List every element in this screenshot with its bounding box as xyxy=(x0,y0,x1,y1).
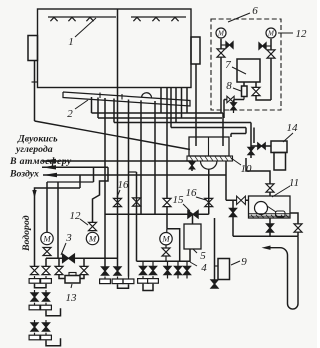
valve under right M xyxy=(267,50,275,58)
stub x167.5 xyxy=(167,261,169,266)
foot x34 xyxy=(34,276,36,279)
tier2 foot right xyxy=(45,303,47,306)
pump bottom stub xyxy=(269,218,271,236)
svg-text:5: 5 xyxy=(200,250,206,262)
stub y172 xyxy=(129,171,137,173)
svg-text:9: 9 xyxy=(241,256,247,268)
valve x59 xyxy=(55,266,63,274)
filter 14 head xyxy=(271,141,287,153)
tier3 valve right xyxy=(45,320,47,323)
pump base line 2 xyxy=(249,215,291,217)
tier3 valve left xyxy=(34,320,36,323)
drain drop to bundle xyxy=(223,100,225,119)
drain column x214 xyxy=(214,218,216,280)
transfer pipe y118 xyxy=(98,117,222,119)
drop pipe a xyxy=(160,88,162,114)
svg-text:16: 16 xyxy=(118,179,130,191)
pipe to trap 13 xyxy=(59,275,65,279)
manifold y214 xyxy=(105,213,209,215)
tier2 valve right xyxy=(45,290,47,293)
manifold 3 (y258) xyxy=(46,257,118,259)
gauge M left (rotameter drive) xyxy=(216,28,226,38)
tank right tab xyxy=(191,37,200,64)
valve x46 xyxy=(42,266,50,274)
air line xyxy=(43,174,226,176)
stub to check valve right xyxy=(266,45,271,47)
svg-text:3: 3 xyxy=(65,232,72,244)
CO2 outlet line xyxy=(42,160,192,162)
riser x246 xyxy=(245,128,247,134)
svg-text:Воздух: Воздух xyxy=(9,169,39,180)
separator outlet stub xyxy=(230,134,232,138)
label 12 leader xyxy=(278,32,293,34)
stub to check valve xyxy=(221,44,226,46)
separator dome xyxy=(201,161,217,169)
separator divider xyxy=(208,137,210,156)
label 2 leader xyxy=(75,100,88,109)
pump motor xyxy=(276,211,286,217)
tier2 foot left xyxy=(34,303,36,306)
separator outlet pipe xyxy=(231,133,246,135)
valve x153 xyxy=(149,266,156,274)
valve x187 xyxy=(183,266,190,274)
label 5 leader xyxy=(193,249,197,253)
valve under left M xyxy=(217,49,225,57)
pipe under left M xyxy=(220,39,222,113)
long vertical x128 xyxy=(128,100,130,277)
label 10 leader xyxy=(231,158,241,165)
stub x143 xyxy=(142,261,144,266)
pipe from trap 13 xyxy=(80,275,84,279)
valve x84 xyxy=(80,266,88,274)
tab stub to tank xyxy=(32,81,38,83)
stub x153 xyxy=(152,261,154,266)
rotameter 8 xyxy=(242,86,248,97)
pump circle xyxy=(255,202,268,215)
tail x167.5 xyxy=(167,275,169,279)
long vertical x117 (divider continuation) xyxy=(117,88,119,272)
svg-text:M: M xyxy=(217,29,225,37)
dashed box 6 xyxy=(211,19,281,110)
apparatus 7 xyxy=(237,59,260,82)
svg-text:M: M xyxy=(88,233,97,243)
rotameter bottom stub xyxy=(243,97,245,100)
trough vent arc xyxy=(142,93,152,98)
tail x178 xyxy=(177,275,179,279)
svg-text:16: 16 xyxy=(186,187,198,199)
trough drain pipe 2 xyxy=(97,98,99,119)
separator inlet pipe (dip tube) xyxy=(222,113,224,146)
svg-text:M: M xyxy=(267,29,275,37)
drop pipe e xyxy=(181,88,183,119)
long vertical x105 xyxy=(104,98,106,271)
branch to bottom pipe xyxy=(232,200,234,236)
riser x254 xyxy=(253,128,255,144)
gauge M right xyxy=(266,28,276,38)
pump right valve xyxy=(294,224,302,232)
atmosphere vent line xyxy=(42,166,108,168)
valve under box 7 xyxy=(252,87,260,95)
trough drain pipe 3 xyxy=(113,99,115,123)
trough divider b xyxy=(121,94,123,100)
svg-text:Двуокись: Двуокись xyxy=(17,134,58,145)
box5 top pipe xyxy=(192,214,194,224)
foot x153 xyxy=(152,276,154,279)
transfer pipe y122 xyxy=(114,122,251,124)
drop pipe f xyxy=(186,88,188,114)
gauge M bottom right xyxy=(86,232,98,244)
filter 14 body xyxy=(274,153,286,171)
valve 16b xyxy=(205,198,213,206)
trough drain pipe 1 xyxy=(91,97,93,113)
drain cock xyxy=(227,96,234,103)
valve 16a xyxy=(114,198,122,206)
rotameter drain pipe xyxy=(224,99,244,101)
label 13 leader xyxy=(71,284,72,288)
stub x46 xyxy=(45,258,47,266)
svg-text:8: 8 xyxy=(226,80,232,92)
svg-text:6: 6 xyxy=(252,5,258,17)
column x47 xyxy=(46,182,48,233)
foot x105 xyxy=(104,277,106,280)
manifold 4 (y261) xyxy=(137,249,191,261)
check valve left xyxy=(226,42,233,49)
gauge M center xyxy=(160,233,172,245)
label 14 leader xyxy=(283,133,293,142)
stub M center top xyxy=(166,229,168,233)
transfer pipe y127 xyxy=(171,127,246,129)
svg-text:углерода: углерода xyxy=(15,144,53,155)
tier3 foot left xyxy=(34,333,36,336)
bottom header pipe xyxy=(233,235,298,237)
transfer pipe y113 xyxy=(92,112,224,114)
suction downpipe xyxy=(225,161,227,200)
tier3 J pipe xyxy=(46,338,61,346)
tail x187 xyxy=(186,275,188,279)
label 1 leader xyxy=(75,18,96,37)
label 16a leader xyxy=(117,190,120,197)
svg-text:12: 12 xyxy=(70,210,82,222)
stub box7 right xyxy=(255,82,257,88)
stub to sampler xyxy=(215,265,219,267)
label 4 leader xyxy=(190,262,197,266)
dome drain pipe xyxy=(208,169,210,214)
apparatus 5 xyxy=(184,224,201,249)
valve 15-row xyxy=(163,198,171,206)
filter feed pipe xyxy=(251,145,271,147)
valve above tray xyxy=(248,147,254,154)
pump bottom valve xyxy=(266,224,273,232)
stub x59 xyxy=(58,258,60,266)
filter feed valve xyxy=(258,143,266,149)
foot x143 xyxy=(142,276,144,279)
tier2 J pipe xyxy=(46,308,61,316)
stub box7 to rotameter xyxy=(243,82,245,86)
label 8 leader xyxy=(233,88,241,91)
tray drain valve xyxy=(189,162,194,169)
trough divider a xyxy=(99,93,101,99)
drop pipe b (to valve row) xyxy=(166,88,168,215)
spray header right xyxy=(131,16,186,18)
label 11 leader xyxy=(272,186,290,197)
pump right outlet xyxy=(290,213,298,236)
drop pipe c xyxy=(170,88,172,128)
discharge valve xyxy=(266,184,274,192)
foot x117 xyxy=(117,277,119,280)
foot under x128 xyxy=(128,277,130,280)
sloped drain pipe to separator xyxy=(35,121,191,150)
valve under M center xyxy=(162,248,170,256)
tank left tab xyxy=(28,36,38,61)
long vertical x155 xyxy=(154,101,156,214)
branch valve xyxy=(229,208,236,216)
column x58 xyxy=(57,182,59,258)
drain stem xyxy=(233,100,235,114)
svg-text:2: 2 xyxy=(67,108,73,120)
valve 12 bottom xyxy=(89,222,97,230)
svg-text:14: 14 xyxy=(287,122,299,134)
svg-text:M: M xyxy=(42,233,51,243)
drop x93 xyxy=(93,167,95,182)
label 12 leader bottom xyxy=(80,219,88,225)
stub M center low xyxy=(165,256,167,261)
label 3 leader xyxy=(61,243,66,255)
hydrogen inlet pipe xyxy=(35,188,81,266)
stub x178 xyxy=(177,261,179,266)
stub x187 xyxy=(186,261,188,266)
valve x143 xyxy=(139,266,146,274)
separator 10 box xyxy=(189,137,229,156)
suction pipe xyxy=(226,199,249,201)
check valve right xyxy=(259,43,266,50)
header y182 xyxy=(47,181,94,183)
svg-text:M: M xyxy=(161,234,170,244)
long vertical x141 xyxy=(140,100,142,214)
hydrogen riser joint xyxy=(79,175,81,189)
tab drop pipe xyxy=(34,61,36,122)
drain valve solid xyxy=(231,103,237,110)
column x136 xyxy=(136,172,138,261)
pipe to right riser xyxy=(256,96,271,101)
riser to filter line and tray xyxy=(250,123,252,159)
gauge M bottom left xyxy=(41,232,53,244)
U loop with arrow xyxy=(269,236,299,309)
sampler 9 xyxy=(218,259,230,280)
svg-text:15: 15 xyxy=(173,194,185,206)
svg-text:1: 1 xyxy=(68,36,74,48)
svg-text:11: 11 xyxy=(289,177,299,189)
tank divider wall xyxy=(117,9,119,88)
pump coupling xyxy=(267,206,276,212)
svg-text:7: 7 xyxy=(225,59,231,71)
svg-text:4: 4 xyxy=(201,262,207,274)
U pipe under feet x143-x153 xyxy=(143,284,153,291)
tray left drain xyxy=(191,161,193,171)
label 6 leader xyxy=(228,13,250,22)
valve x167.5 xyxy=(164,266,171,274)
valve under M left xyxy=(43,248,51,256)
label 15 leader xyxy=(183,204,190,211)
U pipe under feet x34-x46 xyxy=(35,284,47,288)
valve hydrogen col xyxy=(31,266,39,274)
suction valve xyxy=(237,196,246,204)
column x92 staircase from vent line xyxy=(93,167,109,222)
separator tray (hatched) xyxy=(187,156,233,161)
pump base hatch xyxy=(251,215,254,218)
valve x136 xyxy=(133,198,141,206)
drop pipe d xyxy=(175,88,177,123)
label 7 leader xyxy=(232,67,246,74)
pump base line xyxy=(249,213,291,215)
foot x46 xyxy=(45,276,47,279)
tank 1 (scrubber body) xyxy=(38,9,192,88)
label 9 leader xyxy=(231,261,240,265)
trough 2 (sloped collector) xyxy=(63,92,190,106)
svg-text:В атмосферу: В атмосферу xyxy=(9,156,72,167)
drain valve x214 xyxy=(211,280,218,288)
valve x178 xyxy=(174,266,181,274)
tier2 valve left xyxy=(34,290,36,293)
valve x117 xyxy=(114,267,121,275)
trap 13 xyxy=(65,276,80,284)
column 167 lower xyxy=(166,214,168,229)
valve 15 (solid) xyxy=(188,210,198,218)
valve 3 (solid) xyxy=(63,254,75,263)
pipe from right tab down (dips into separator) xyxy=(195,64,197,146)
spray header left xyxy=(48,16,116,18)
L pipe to manifold 4 xyxy=(167,229,180,261)
pump discharge pipe xyxy=(246,158,270,196)
tier3 foot right xyxy=(45,333,47,336)
stub x84 xyxy=(83,258,85,266)
svg-text:12: 12 xyxy=(296,28,308,40)
svg-text:13: 13 xyxy=(66,292,78,304)
pump 11 box xyxy=(249,196,291,218)
label 16b leader xyxy=(196,197,206,200)
U pipe under feet x117-x128 xyxy=(118,284,129,288)
svg-text:Водород: Водород xyxy=(21,215,32,252)
valve x105 xyxy=(101,267,108,275)
pipe under right M xyxy=(270,39,272,100)
stub M center xyxy=(165,245,167,248)
